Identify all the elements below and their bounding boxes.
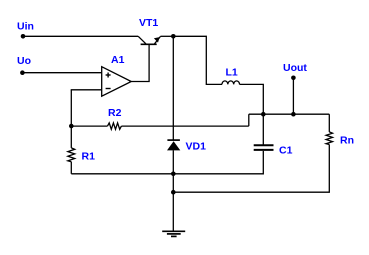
wire L1 to output rail: [240, 84, 264, 145]
wire feedback vertical to R1/R2 node: [70, 90, 72, 148]
node Uout terminal dot: [291, 76, 296, 81]
capacitor C1 plates: [254, 145, 274, 150]
node Uin terminal dot: [21, 34, 26, 39]
node Uo terminal dot: [20, 70, 25, 75]
wire Uout lead: [292, 78, 294, 114]
wire Rn bottom to ground rail B: [173, 145, 329, 193]
svg-text:Uo: Uo: [17, 55, 31, 67]
junction node ground rail A: [171, 172, 176, 177]
wire Uo to op-amp + input: [22, 72, 101, 74]
wire R1 bottom: [70, 162, 72, 174]
wire output rail: [249, 113, 329, 115]
wire Uin to VT1 collector: [23, 35, 138, 37]
svg-text:Uin: Uin: [17, 21, 34, 33]
svg-text:VD1: VD1: [186, 141, 207, 153]
svg-text:R1: R1: [82, 151, 96, 163]
svg-text:R2: R2: [108, 107, 122, 119]
wire Rn top: [328, 114, 330, 132]
wire switch node down to VD1: [172, 36, 174, 140]
resistor Rn zigzag: [326, 132, 332, 145]
resistor R1 zigzag: [68, 148, 75, 162]
junction node C1 top: [261, 112, 266, 117]
wire VD1 anode down to ground node: [172, 150, 174, 231]
junction node switch: [171, 34, 176, 39]
svg-text:Rn: Rn: [340, 135, 354, 147]
svg-text:Uout: Uout: [283, 62, 307, 74]
wire R2 left: [71, 125, 107, 127]
wire C1 bottom lead: [71, 151, 263, 174]
wire op-amp output to VT1 base: [131, 45, 149, 82]
op-amp U1 triangle: [102, 67, 132, 97]
junction node Uout tap: [291, 112, 296, 117]
diode VD1 symbol: [167, 140, 180, 150]
wire VT1 emitter to junction: [161, 35, 174, 37]
svg-text:VT1: VT1: [139, 17, 158, 29]
junction node ground rail B: [171, 190, 176, 195]
resistor R2 zigzag: [108, 123, 122, 129]
svg-text:C1: C1: [279, 144, 293, 156]
ground: [162, 231, 185, 236]
transistor Q1 body: [138, 36, 160, 44]
wire R2 right: [121, 125, 248, 127]
wire switch node to L1 corner: [173, 36, 222, 84]
inductor L1 coil: [222, 81, 240, 85]
wire op-amp - input: [71, 89, 102, 91]
wire rail step down to R2 wire: [248, 114, 250, 126]
svg-text:A1: A1: [111, 54, 125, 66]
svg-text:L1: L1: [226, 66, 238, 78]
junction node feedback: [69, 124, 74, 129]
